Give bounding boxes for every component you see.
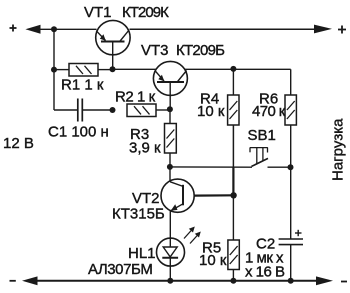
node: left branch / R1 left [51,67,57,73]
arrow top-left [25,25,40,34]
wire VT3 collector to R6 corner [184,68,290,70]
wire VT2 collector top [169,167,171,182]
svg-text:12 В: 12 В [3,135,34,152]
wire SB1 right [268,166,291,168]
node: SB1 right / R6 / C2 [288,164,294,170]
wire top rail left [40,28,97,30]
wire C1 left lead [54,109,78,111]
C2 polarity plus [295,230,302,236]
resistor R6 [285,95,296,125]
node: R5 / bottom rail [230,278,236,284]
svg-text:х 16 В: х 16 В [245,263,285,280]
wire R3 bottom lead [169,153,171,167]
resistor R4 [228,95,239,125]
capacitor C2 [279,239,303,245]
node: R2 / VT3 base / R3 top [167,106,173,112]
svg-text:КТ315Б: КТ315Б [112,205,165,222]
resistor R2 [127,104,156,117]
capacitor C1 [78,99,83,122]
wire R3 top lead [169,109,171,123]
transistor VT2 [161,179,194,212]
node: HL1 / bottom rail [167,278,173,284]
wire C2 top lead [290,167,292,239]
wire bus VT1base-VT3 emitter [113,68,157,70]
wire VT2 emitter to HL1 [169,211,171,238]
wire R5 top lead [232,195,234,240]
svg-text:HL1: HL1 [128,245,156,262]
wire R6 bottom to SB1 node [290,125,292,167]
wire C1 right lead [82,109,112,111]
node: bus / R4 top [230,66,236,72]
wire top rail right [130,28,317,30]
wire R1 right lead [98,69,113,71]
svg-text:АЛ307БМ: АЛ307БМ [88,261,152,278]
pushbutton SB1 [250,148,268,167]
wire HL1 bottom [169,266,171,281]
wire vertical left branch x54 [53,29,55,110]
svg-text:470 к: 470 к [252,103,286,120]
HL1 emission arrows [184,227,201,244]
resistor R3 [165,124,177,154]
transistor VT1 [96,20,130,69]
node: C2 / bottom rail [288,278,294,284]
wire R1 left lead [54,69,69,71]
arrow bottom-left [22,276,38,285]
wire R4 bottom lead [232,125,234,167]
wire R5 bottom lead [232,270,234,281]
resistor R5 [228,240,239,270]
arrow bottom-right [316,276,333,285]
plus terminal top-right [338,26,346,34]
transistor VT3 [153,61,187,109]
svg-text:SB1: SB1 [248,127,276,144]
wire SB1 left [170,166,252,168]
minus terminal bottom-left [10,280,16,282]
svg-text:R2 1 к: R2 1 к [115,89,156,106]
minus terminal bottom-right [341,281,347,283]
wire R4 top lead [232,69,234,95]
node: top rail / R1-C1 branch [51,26,57,32]
svg-text:КТ209Б: КТ209Б [176,42,225,59]
svg-text:VT3: VT3 [141,42,169,59]
node: R1 / VT1 base / bus to VT3 [110,66,116,72]
wire bottom rail [37,280,318,282]
node: R3 bottom / SB1 wire / VT2 collector [167,164,173,170]
resistor R1 [69,64,98,77]
svg-text:Нагрузка: Нагрузка [330,118,347,181]
svg-text:3,9 к: 3,9 к [129,140,161,157]
node: C1 / R2 / VT1 base bottom [110,107,116,113]
LED HL1 [157,238,185,266]
wire R6 top lead [290,69,292,95]
svg-text:VT1: VT1 [84,4,112,21]
svg-text:10 к: 10 к [199,252,227,269]
node: VT2 base / R4-R5 [230,192,236,198]
svg-text:C1 100 н: C1 100 н [48,124,109,141]
wire VT2 base to node [194,194,234,197]
wire C2 bottom lead [290,245,292,281]
wire R4/SB1 crossing to VT2 base node [232,167,234,195]
svg-text:КТ209К: КТ209К [122,4,169,21]
arrow top-right [314,25,332,34]
plus terminal top-left [10,25,17,32]
svg-text:10 к: 10 к [197,103,225,120]
svg-text:R1 1 к: R1 1 к [61,77,104,94]
wire R2 right lead [156,109,170,111]
